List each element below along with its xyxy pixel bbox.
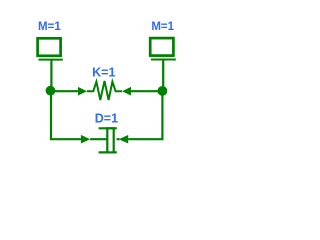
svg-text:M=1: M=1 xyxy=(151,21,174,33)
wire: node B down and left to damper xyxy=(128,91,162,139)
node A (left junction dot) xyxy=(46,86,56,96)
arrow into spring (right, pointing left) xyxy=(122,87,131,96)
mass M2 (right square) xyxy=(150,38,173,56)
mass M2 flange bar xyxy=(151,59,176,61)
damper D1 cylinder bottom line xyxy=(99,151,117,153)
arrow into damper (right, pointing left) xyxy=(119,135,128,144)
svg-text:D=1: D=1 xyxy=(95,111,118,125)
wire: M2 stem to node B xyxy=(162,60,164,88)
arrow into spring (left, pointing right) xyxy=(78,87,87,96)
wire: node A right to spring arrow xyxy=(51,90,79,92)
arrow into damper (left, pointing right) xyxy=(81,135,90,144)
damper D1 cylinder top line xyxy=(99,127,117,129)
node B (right junction dot) xyxy=(158,86,168,96)
svg-text:K=1: K=1 xyxy=(92,65,115,79)
svg-text:M=1: M=1 xyxy=(38,21,61,33)
wire: damper right rod xyxy=(117,138,120,140)
wire: spring to node B xyxy=(131,90,162,92)
spring K1 zigzag xyxy=(87,81,122,100)
wire: node A down and right to damper xyxy=(51,91,81,140)
wire: M1 stem to node A xyxy=(50,60,52,88)
mass M1 flange bar xyxy=(39,59,63,61)
damper D1 piston box xyxy=(107,128,113,152)
mass M1 (left square) xyxy=(38,38,61,56)
wire: damper left rod xyxy=(90,138,107,140)
